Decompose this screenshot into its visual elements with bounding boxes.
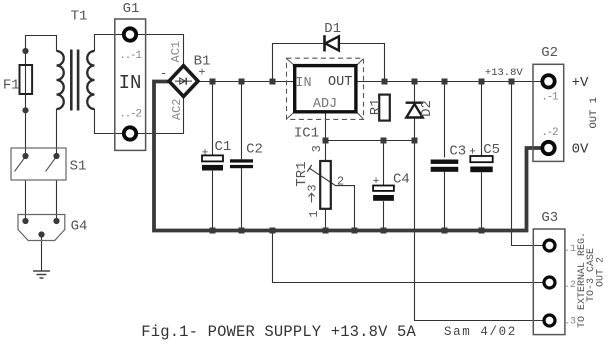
svg-text:F1: F1 bbox=[3, 77, 20, 93]
svg-text:IN: IN bbox=[119, 72, 142, 94]
svg-text:.2: .2 bbox=[564, 280, 576, 291]
svg-text:G2: G2 bbox=[541, 45, 558, 61]
svg-text:.1: .1 bbox=[564, 244, 576, 255]
svg-text:..-1: ..-1 bbox=[119, 50, 142, 62]
svg-text:G3: G3 bbox=[541, 210, 558, 226]
svg-text:C3: C3 bbox=[449, 144, 466, 160]
svg-text:3: 3 bbox=[310, 145, 324, 152]
svg-text:T1: T1 bbox=[71, 9, 88, 25]
svg-text:AC2: AC2 bbox=[170, 98, 184, 120]
svg-text:TR1: TR1 bbox=[294, 161, 310, 186]
svg-text:3: 3 bbox=[306, 184, 320, 191]
svg-text:+: + bbox=[373, 176, 380, 188]
svg-text:C2: C2 bbox=[246, 142, 263, 158]
svg-text:AC1: AC1 bbox=[169, 41, 183, 63]
svg-text:G4: G4 bbox=[71, 219, 88, 235]
svg-text:OUT 1: OUT 1 bbox=[588, 97, 600, 129]
svg-text:C1: C1 bbox=[214, 139, 231, 155]
svg-text:R1: R1 bbox=[368, 98, 384, 115]
svg-text:IN: IN bbox=[295, 76, 311, 91]
svg-text:D1: D1 bbox=[324, 21, 341, 37]
svg-text:D2: D2 bbox=[419, 100, 435, 117]
svg-text:+: + bbox=[202, 148, 209, 160]
svg-text:+: + bbox=[469, 147, 476, 159]
svg-text:0V: 0V bbox=[572, 142, 589, 158]
svg-text:C5: C5 bbox=[483, 142, 500, 158]
svg-text:ADJ: ADJ bbox=[313, 97, 337, 112]
svg-text:..-2: ..-2 bbox=[119, 109, 141, 121]
svg-text:1: 1 bbox=[307, 210, 321, 217]
svg-text:.-1: .-1 bbox=[541, 92, 559, 104]
svg-text:2: 2 bbox=[337, 175, 344, 189]
svg-text:G1: G1 bbox=[123, 1, 140, 17]
svg-text:+V: +V bbox=[572, 75, 589, 91]
svg-text:-: - bbox=[160, 67, 167, 81]
svg-text:OUT: OUT bbox=[328, 75, 352, 90]
svg-text:Fig.1- POWER SUPPLY +13.8V 5A: Fig.1- POWER SUPPLY +13.8V 5A bbox=[141, 323, 416, 341]
svg-text:+: + bbox=[198, 66, 205, 80]
svg-text:OUT 2: OUT 2 bbox=[596, 257, 607, 287]
svg-text:.3: .3 bbox=[564, 317, 576, 328]
svg-text:C4: C4 bbox=[393, 171, 410, 187]
svg-text:Sam 4/02: Sam 4/02 bbox=[444, 325, 517, 339]
svg-text:+13.8V: +13.8V bbox=[485, 67, 524, 79]
svg-text:IC1: IC1 bbox=[294, 126, 319, 142]
svg-text:.-2: .-2 bbox=[541, 127, 558, 139]
svg-text:S1: S1 bbox=[70, 159, 87, 175]
